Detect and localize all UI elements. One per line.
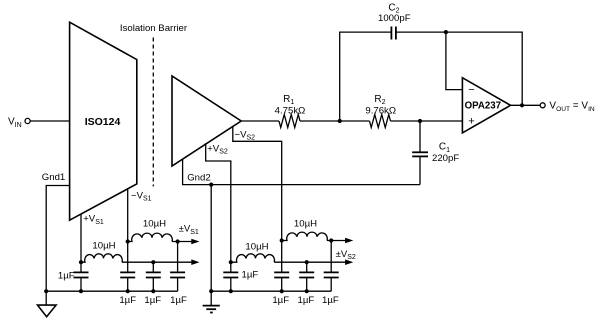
svg-text:1µF: 1µF — [119, 295, 136, 306]
wire R2 to noninverting input — [391, 120, 463, 122]
svg-text:+: + — [468, 116, 474, 128]
wire +VS1 rail to arrow — [122, 261, 192, 263]
svg-text:−VS1: −VS1 — [131, 190, 152, 202]
capacitor 1uF C7 — [223, 262, 258, 291]
svg-text:10µH: 10µH — [245, 241, 268, 252]
node Gnd2 — [209, 183, 213, 187]
svg-text:Isolation Barrier: Isolation Barrier — [120, 23, 188, 34]
svg-text:1000pF: 1000pF — [378, 13, 411, 24]
svg-text:10µH: 10µH — [294, 218, 317, 229]
wire to inverting input — [446, 32, 463, 90]
svg-text:VOUT = VIN: VOUT = VIN — [549, 101, 595, 113]
node Gnd2 rail — [209, 289, 213, 293]
capacitor 1uF C6 — [170, 242, 187, 307]
wire VIN to ISO124 — [30, 120, 69, 122]
op-amp U2 OPA237 — [462, 78, 510, 133]
svg-text:10µH: 10µH — [143, 218, 166, 229]
ground rail right — [211, 290, 331, 292]
node Gnd1 rail — [44, 289, 48, 293]
svg-text:1µF: 1µF — [322, 295, 339, 306]
capacitor C2 — [378, 2, 411, 39]
node C9 rail — [305, 260, 309, 264]
wire Gnd2 drop to ground — [210, 185, 212, 306]
svg-text:±VS1: ±VS1 — [179, 224, 199, 236]
svg-text:1µF: 1µF — [272, 295, 289, 306]
svg-text:9.76kΩ: 9.76kΩ — [365, 105, 396, 116]
output terminal VOUT — [540, 101, 595, 113]
node C9 ground — [305, 289, 309, 293]
node C5 ground — [151, 289, 155, 293]
isolation amplifier U1 ISO124 — [70, 22, 137, 220]
arrow +VS1 rail — [191, 259, 199, 265]
resistor R1 — [275, 94, 306, 128]
ground symbol Gnd2 earth — [203, 306, 220, 313]
node +VS1 — [79, 260, 83, 264]
node R1-R2-C2 — [338, 119, 342, 123]
wire R1 to R2 — [300, 120, 370, 122]
inductor L3 10uH — [231, 241, 275, 262]
resistor R2 — [365, 94, 396, 128]
svg-text:−: − — [468, 84, 474, 96]
svg-text:1µF: 1µF — [298, 295, 315, 306]
wire +VS2 rail to arrow — [274, 261, 345, 263]
node C3 ground — [79, 289, 83, 293]
svg-text:ISO124: ISO124 — [85, 116, 121, 128]
isolation barrier — [120, 23, 188, 186]
svg-text:1µF: 1µF — [170, 295, 187, 306]
node -VS1 — [126, 239, 130, 243]
node C7 ground — [229, 289, 233, 293]
svg-text:1µF: 1µF — [144, 295, 161, 306]
arrow +VS2 rail — [345, 259, 353, 265]
inductor L2 10uH — [128, 218, 173, 241]
svg-text:Gnd1: Gnd1 — [42, 172, 65, 183]
node +VS2 — [229, 260, 233, 264]
wire +VS1 pin — [81, 214, 104, 263]
node C8 ground — [280, 289, 284, 293]
wire -VS2 pin — [233, 126, 282, 240]
svg-text:±VS2: ±VS2 — [336, 249, 356, 261]
input terminal VIN — [8, 117, 30, 129]
wire -VS1 pin — [128, 188, 152, 241]
node C5 rail — [151, 260, 155, 264]
ground rail left — [46, 290, 177, 292]
node C4 ground — [126, 289, 130, 293]
svg-text:−VS2: −VS2 — [235, 129, 256, 141]
inductor L1 10uH — [81, 240, 122, 262]
node -VS2 rail cap — [329, 238, 333, 242]
svg-text:Gnd2: Gnd2 — [187, 172, 210, 183]
arrow -VS1 rail — [191, 239, 199, 245]
svg-text:4.75kΩ: 4.75kΩ — [275, 105, 306, 116]
capacitor 1uF C9 — [298, 262, 315, 306]
svg-text:1µF: 1µF — [58, 270, 75, 281]
capacitor 1uF C10 — [322, 241, 339, 307]
svg-text:VIN: VIN — [8, 117, 22, 129]
node -VS2 — [280, 238, 284, 242]
wire C2 to feedback corner — [396, 32, 522, 105]
node R2-C1 — [418, 119, 422, 123]
node output feedback — [520, 103, 524, 107]
wire +VS2 pin — [206, 143, 231, 262]
wire Gnd2 net — [183, 159, 420, 184]
wire -VS2 rail to arrow — [327, 240, 346, 242]
wire A2 output to R1 — [241, 120, 279, 122]
svg-text:+VS1: +VS1 — [83, 214, 104, 226]
svg-text:1µF: 1µF — [242, 270, 259, 281]
wire -VS1 rail to arrow — [172, 241, 192, 243]
svg-text:+VS2: +VS2 — [207, 143, 228, 155]
inductor L4 10uH — [282, 218, 328, 240]
wire op-amp output — [511, 104, 541, 106]
arrow -VS2 rail — [345, 238, 353, 244]
capacitor 1uF C8 — [272, 241, 289, 307]
capacitor C1 — [412, 121, 459, 185]
svg-text:OPA237: OPA237 — [465, 101, 501, 112]
wire Gnd1 from ISO124 to ground — [42, 172, 70, 305]
svg-text:10µH: 10µH — [92, 240, 115, 251]
svg-text:220pF: 220pF — [432, 153, 459, 164]
node C2-inverting branch — [444, 30, 448, 34]
capacitor 1uF C5 — [144, 262, 161, 306]
capacitor 1uF C4 — [119, 242, 136, 307]
amplifier A2 output stage — [172, 76, 241, 166]
ground symbol Gnd1 — [38, 305, 57, 317]
node -VS1 rail cap — [176, 239, 180, 243]
capacitor 1uF C3 — [58, 262, 89, 291]
wire node up to C2 — [340, 32, 392, 121]
